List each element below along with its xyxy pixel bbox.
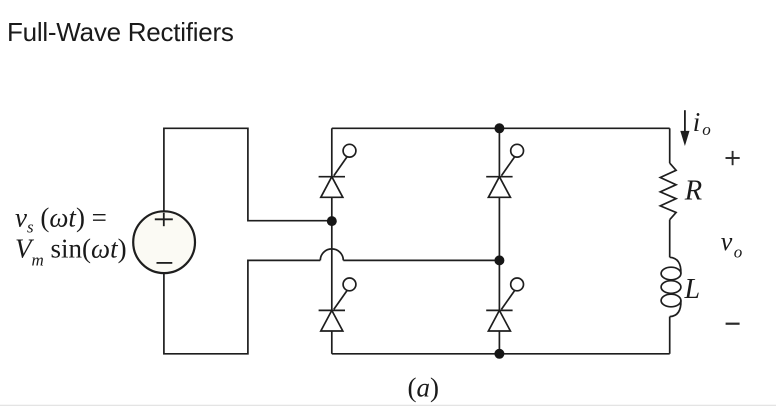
wire: right leg upper segment — [498, 128, 500, 176]
wire: source bottom loop (source bottom to lower horizontal) — [164, 260, 320, 353]
svg-text:R: R — [684, 176, 702, 207]
label: plus polarity — [726, 151, 740, 165]
rule: faint page line — [0, 404, 776, 406]
node: bottom right junction — [494, 349, 504, 359]
SCR T1 (top left thyristor) — [319, 144, 356, 197]
svg-text:o: o — [702, 120, 711, 139]
voltage source vs — [133, 211, 195, 273]
label: minus polarity — [726, 323, 740, 325]
wire: load bottom segment — [669, 317, 671, 354]
wire: load top segment — [669, 128, 671, 163]
node: right mid junction — [494, 255, 504, 265]
svg-text:v: v — [721, 227, 733, 256]
wire: load middle segment (between R and L) — [669, 220, 671, 258]
svg-text:L: L — [684, 274, 701, 305]
SCR T4 (bottom right thyristor) — [486, 278, 523, 331]
svg-text:o: o — [734, 242, 743, 261]
wire: bottom rail — [332, 353, 670, 355]
arrow: output current direction — [680, 110, 689, 146]
node: top right junction — [494, 123, 504, 133]
SCR T2 (top right thyristor) — [486, 144, 523, 197]
wire: top rail — [332, 127, 670, 129]
wire: left leg upper segment — [331, 128, 333, 176]
wire: crossover hop over left bridge leg — [320, 249, 343, 261]
svg-text:(a): (a) — [408, 372, 440, 402]
wire: lower horizontal to right mid node — [343, 259, 499, 261]
wire: source top loop (source top to upper bridge input step) — [164, 128, 332, 220]
wire: right leg middle segment — [498, 197, 500, 310]
wire: left leg middle segment — [331, 197, 333, 310]
inductor L — [661, 257, 681, 316]
wire: left leg lower segment — [331, 331, 333, 354]
wire: right leg lower segment — [498, 331, 500, 354]
node: left mid junction — [327, 216, 337, 226]
SCR T3 (bottom left thyristor) — [319, 278, 356, 331]
svg-text:i: i — [693, 107, 701, 137]
resistor R — [660, 163, 676, 220]
svg-text:Full-Wave Rectifiers: Full-Wave Rectifiers — [7, 17, 234, 47]
